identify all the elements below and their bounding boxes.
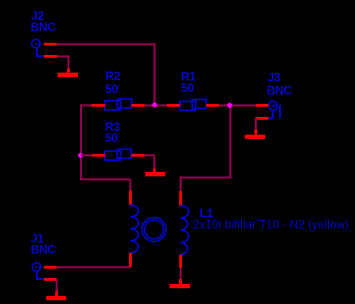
- L1 right winding pin top: [179, 191, 182, 206]
- svg-text:50: 50: [105, 82, 118, 96]
- svg-text:50: 50: [105, 131, 118, 145]
- pin 1 of J1: [44, 266, 57, 269]
- connector J2: [31, 9, 57, 56]
- wire J1 to L1 left bottom: [57, 266, 130, 268]
- svg-text:50: 50: [181, 81, 194, 95]
- svg-text:R2: R2: [105, 69, 120, 83]
- wire R2 left to corner: [81, 104, 92, 106]
- wire J3 shield to ground: [255, 117, 257, 129]
- svg-text:J3: J3: [268, 70, 281, 84]
- wire bottom horizontal to L1 left top: [80, 178, 130, 180]
- resistor R3: [105, 120, 132, 160]
- junction node 1: [152, 103, 157, 108]
- svg-text:BNC: BNC: [31, 243, 57, 257]
- pin 1 of J2: [44, 43, 57, 46]
- svg-text:2x10t bifillar T10 - N2 (yello: 2x10t bifillar T10 - N2 (yellow): [193, 219, 349, 231]
- toroid core: [142, 218, 166, 242]
- wire node1 left segment to R2: [145, 104, 167, 106]
- ground G1 (J2 shield): [58, 69, 79, 78]
- pin 1 of R3: [92, 154, 105, 157]
- ground G2 (R3 net): [145, 169, 165, 177]
- ground G5 (J1 shield): [46, 291, 66, 300]
- pin 1 of J3: [256, 104, 268, 107]
- L1 left winding pin bottom: [129, 253, 132, 267]
- svg-text:BNC: BNC: [267, 84, 293, 98]
- pin 2 of R3: [131, 154, 144, 157]
- wire down to L1 left winding: [129, 179, 131, 191]
- wire R3 right to ground: [145, 155, 155, 169]
- connector J3: [267, 70, 293, 118]
- resistor R2: [105, 69, 132, 110]
- pin 2 of J2: [44, 55, 57, 58]
- pin 2 of J3: [256, 117, 269, 120]
- L1 left winding pin top: [129, 191, 132, 206]
- ground G3 (J3 shield): [245, 130, 265, 139]
- transformer L1: [193, 206, 349, 231]
- wire node2 row: [219, 104, 256, 106]
- junction node 3: [78, 153, 83, 158]
- junction node 2: [227, 103, 232, 108]
- resistor R1: [180, 69, 207, 110]
- connector J1: [31, 231, 57, 279]
- L1 right winding: [181, 205, 189, 254]
- ground G4 (L1 right): [170, 279, 190, 288]
- wire L1 right bottom to ground: [180, 268, 182, 280]
- wire J2 shield to ground: [57, 56, 69, 68]
- wire node2 down: [181, 105, 231, 191]
- pin 1 of R2: [92, 104, 106, 107]
- wire vertical corner down through node 3: [80, 104, 82, 179]
- L1 right winding pin bottom: [179, 255, 182, 268]
- pin 1 of R1: [167, 104, 180, 107]
- L1 left winding: [130, 205, 138, 253]
- wire J1 shield down: [56, 279, 58, 291]
- wire node3 to R3: [81, 154, 92, 156]
- svg-text:BNC: BNC: [31, 20, 57, 34]
- pin 2 of J1: [44, 278, 57, 281]
- pin 2 of R1: [206, 104, 219, 107]
- wire J2 pin1 to node 1: [57, 44, 155, 103]
- pin 2 of R2: [131, 104, 144, 107]
- svg-text:L1: L1: [200, 206, 214, 220]
